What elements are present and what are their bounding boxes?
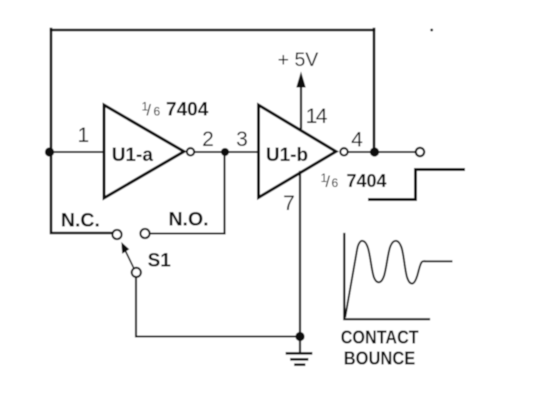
svg-text:N.O.: N.O. bbox=[168, 209, 208, 231]
svg-text:U1-a: U1-a bbox=[112, 145, 154, 166]
svg-text:+ 5V: + 5V bbox=[278, 49, 319, 71]
svg-text:7404: 7404 bbox=[347, 171, 387, 191]
svg-text:14: 14 bbox=[306, 105, 328, 128]
svg-text:/: / bbox=[147, 103, 152, 120]
svg-text:1: 1 bbox=[77, 124, 89, 147]
svg-text:6: 6 bbox=[332, 176, 339, 190]
svg-text:6: 6 bbox=[154, 105, 161, 119]
svg-text:2: 2 bbox=[202, 128, 214, 151]
svg-text:7: 7 bbox=[283, 192, 295, 215]
svg-text:7404: 7404 bbox=[166, 100, 209, 121]
svg-text:/: / bbox=[326, 174, 331, 191]
svg-text:U1-b: U1-b bbox=[266, 145, 308, 166]
svg-text:N.C.: N.C. bbox=[61, 210, 100, 232]
svg-text:CONTACT: CONTACT bbox=[341, 327, 420, 348]
svg-text:BOUNCE: BOUNCE bbox=[344, 348, 416, 369]
svg-text:4: 4 bbox=[351, 129, 363, 152]
svg-text:3: 3 bbox=[236, 128, 248, 151]
svg-text:S1: S1 bbox=[148, 251, 172, 272]
